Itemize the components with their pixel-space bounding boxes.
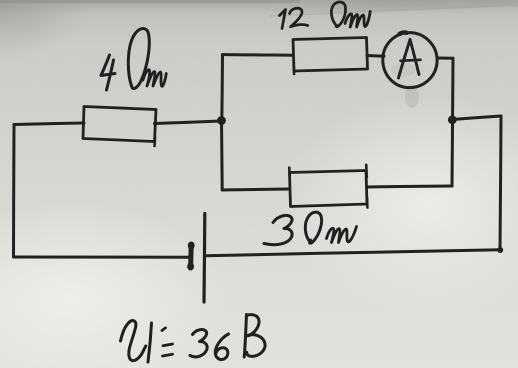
wire node A down to bottom branch bbox=[220, 121, 224, 190]
resistor R1 box bbox=[83, 107, 156, 147]
wire node A up to top branch bbox=[220, 55, 224, 122]
wire top branch to R2 bbox=[223, 53, 294, 57]
wire bottom rail right bbox=[205, 247, 504, 256]
ammeter A1 bbox=[383, 32, 437, 87]
resistor R2 box bbox=[293, 38, 368, 75]
wire R2 to ammeter bbox=[367, 54, 384, 58]
label R1 value 4 Ом bbox=[101, 28, 166, 90]
paper crease bbox=[270, 6, 518, 17]
resistor R3 box bbox=[289, 165, 367, 208]
node B junction dot bbox=[448, 115, 457, 124]
wire right drop vertical bbox=[452, 58, 453, 186]
wire left rail vertical bbox=[12, 125, 16, 258]
battery BT1 long plate bbox=[202, 214, 206, 303]
wire ammeter to right drop bbox=[437, 57, 453, 60]
label R2 value 12 Ом bbox=[280, 2, 371, 29]
wire R1 to node A bbox=[155, 121, 222, 124]
label R3 value 3 Ом bbox=[264, 212, 357, 245]
ink smudge below ammeter bbox=[391, 63, 419, 108]
wire bottom branch to R3 bbox=[222, 189, 289, 190]
wire left feed to R1 bbox=[14, 123, 84, 125]
wire bottom rail left bbox=[14, 256, 191, 259]
label source voltage U = 36 В bbox=[121, 315, 266, 363]
wire right rail vertical bbox=[500, 116, 501, 251]
wire R3 to node B bbox=[367, 186, 452, 187]
battery BT1 short plate bbox=[187, 242, 194, 271]
node A junction dot bbox=[217, 116, 226, 125]
wire node B to right rail bbox=[452, 116, 501, 120]
